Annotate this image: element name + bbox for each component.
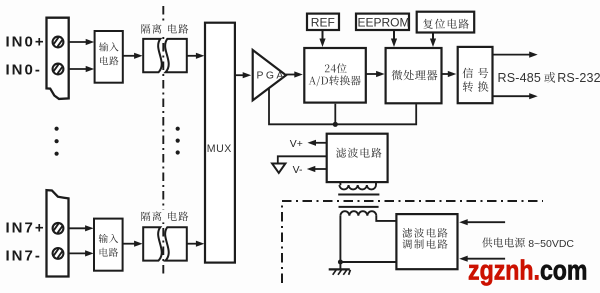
- svg-text:PGA: PGA: [257, 71, 286, 82]
- power input wire lower: [459, 256, 505, 262]
- wire isolation to MUX lower: [187, 241, 205, 247]
- label 输入电路 upper: [99, 42, 119, 65]
- wire MUX to PGA: [235, 72, 251, 78]
- label 滤波电路: [336, 148, 382, 158]
- wire EEPROM to MCU: [391, 30, 397, 47]
- filter circuit block 滤波电路: [327, 134, 388, 182]
- svg-text:V+: V+: [290, 139, 303, 150]
- filter/modulation block 滤波电路调制电路: [396, 214, 457, 269]
- power input wire upper: [459, 219, 505, 225]
- wire winding right leg to modulation block: [376, 216, 396, 221]
- feedback bus wire (PGA - ADC - MCU): [269, 89, 416, 125]
- wire reset circuit to MCU: [430, 33, 436, 48]
- junction node at ground: [338, 260, 343, 265]
- label 隔离电路 upper: [139, 23, 193, 36]
- svg-text:IN7+: IN7+: [6, 220, 46, 237]
- MCU block 微处理器: [386, 48, 442, 103]
- svg-text:EEPROM: EEPROM: [358, 16, 410, 30]
- wire isolation to MUX upper: [187, 53, 205, 59]
- wire REF to ADC: [319, 30, 325, 47]
- ellipsis dots right: [176, 127, 180, 155]
- terminal block J1 (IN0 side, torn bottom): [47, 18, 69, 99]
- wire input circuit to isolation lower: [123, 241, 143, 247]
- svg-text:REF: REF: [311, 16, 335, 30]
- wire winding left leg to ground node: [339, 216, 341, 262]
- REF block: [307, 14, 339, 30]
- label RS-485 or RS-232: [498, 71, 600, 85]
- wire input circuit to isolation upper: [123, 53, 143, 59]
- svg-text:IN7-: IN7-: [6, 247, 42, 264]
- svg-text:8~50VDC: 8~50VDC: [528, 238, 574, 250]
- transformer core line upper: [338, 194, 379, 196]
- isolation transformer symbol lower (隔离电路): [143, 227, 187, 260]
- isolation boundary dash-dot line: [162, 6, 164, 274]
- wire IN7+ screw to input circuit: [69, 225, 94, 231]
- input circuit block (输入电路) upper: [95, 31, 123, 83]
- RS-485 output wire upper: [493, 52, 538, 58]
- svg-text:RS-232: RS-232: [557, 71, 600, 85]
- reset circuit block 复位电路: [417, 12, 475, 33]
- op-amp PGA triangle: [253, 50, 286, 100]
- input circuit block (输入电路) lower: [94, 219, 123, 271]
- wire PGA to ADC: [286, 71, 303, 77]
- label 隔离电路 lower: [139, 210, 193, 223]
- wire IN7- screw to input circuit: [69, 250, 94, 256]
- wire IN0+ screw to input circuit: [69, 39, 95, 45]
- junction node on feedback bus: [333, 122, 338, 127]
- analog common wire to triangle ground: [278, 156, 327, 162]
- label 信号转换: [463, 68, 489, 92]
- svg-text:RS-485: RS-485: [498, 71, 542, 85]
- svg-text:IN0+: IN0+: [6, 34, 46, 51]
- label 微处理器: [392, 70, 438, 81]
- V- supply wire: [307, 166, 327, 172]
- wire ADC to MCU: [366, 71, 385, 77]
- svg-text:IN0-: IN0-: [6, 61, 42, 78]
- svg-text:MUX: MUX: [207, 143, 232, 155]
- EEPROM block: [356, 14, 409, 30]
- label 输入电路 lower: [99, 234, 119, 257]
- label 24位 A/D转换器: [309, 63, 361, 86]
- screw terminal IN7-: [53, 248, 64, 259]
- V+ supply wire: [308, 140, 327, 146]
- analog ground triangle symbol: [272, 164, 285, 173]
- ellipsis dots left: [55, 127, 59, 156]
- MUX block: [205, 23, 235, 263]
- isolation transformer symbol upper (隔离电路): [143, 39, 187, 72]
- terminal block J2 (IN7 side, torn top): [47, 190, 69, 276]
- label 复位电路: [423, 19, 469, 29]
- signal conversion block 信号转换: [458, 47, 493, 103]
- svg-text:zgznh.com: zgznh.com: [468, 254, 588, 285]
- screw terminal IN0-: [53, 64, 64, 75]
- transformer T1 secondary winding (isolated side): [339, 185, 376, 189]
- earth ground symbol: [329, 262, 351, 275]
- transformer T1 primary stubs: [340, 182, 376, 185]
- transformer core line lower: [339, 206, 379, 208]
- RS-485 output wire lower: [493, 93, 538, 99]
- label 滤波电路调制电路: [402, 228, 447, 249]
- wire MCU to signal conversion: [442, 71, 456, 77]
- svg-text:V-: V-: [293, 165, 303, 176]
- ADC block 24-bit A/D converter: [304, 48, 366, 103]
- wire IN0- screw to input circuit: [69, 66, 95, 72]
- screw terminal IN7+: [53, 223, 64, 234]
- transformer T1 primary winding (power side): [340, 211, 376, 216]
- label 供电电源 8~50VDC: [482, 238, 574, 250]
- power section enclosure dash-dot border: [282, 201, 543, 283]
- wire ground node to modulation block: [340, 261, 396, 263]
- screw terminal IN0+: [53, 37, 64, 48]
